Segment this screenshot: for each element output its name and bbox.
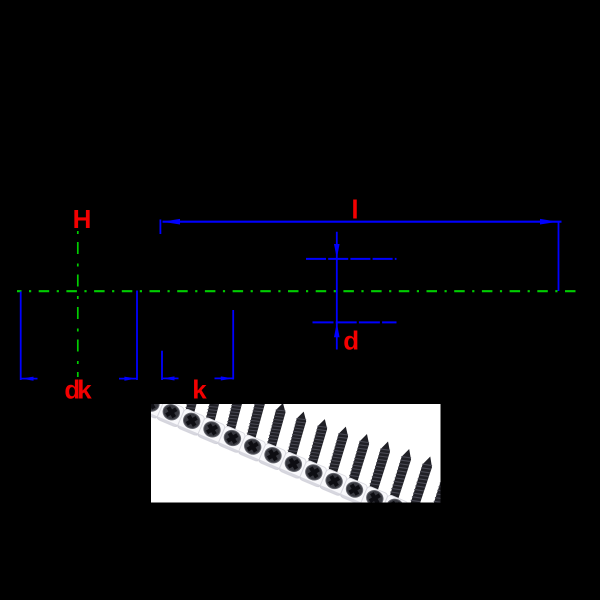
svg-text:d: d <box>343 325 359 355</box>
screw 4 <box>197 376 225 445</box>
dimension dk: right extension line <box>136 291 138 381</box>
screw 10 <box>319 425 350 496</box>
dimension k: left arrow stub <box>163 377 179 379</box>
svg-text:H: H <box>73 204 92 234</box>
screw 9 <box>299 418 330 488</box>
dimension dk: right arrow stub <box>119 378 137 380</box>
screw 13 <box>380 447 413 522</box>
screw 14 <box>401 455 435 531</box>
screw 7 <box>258 402 288 471</box>
dimension dk: left arrow stub <box>22 378 38 380</box>
dimension d: top extent line (dashed) <box>306 258 397 260</box>
screw 15 <box>421 462 456 539</box>
svg-text:l: l <box>351 194 358 224</box>
head axis line (vertical green dash-dot) <box>77 231 79 377</box>
photo background <box>151 404 441 503</box>
dimension l: left extension line <box>159 220 161 235</box>
dimension d: vertical dimension line <box>336 232 338 350</box>
dimension d: bottom extent line (dashed) <box>313 321 397 323</box>
svg-text:k: k <box>192 374 207 404</box>
dimension k: left extension line <box>161 351 163 380</box>
dimension l: dimension line <box>163 221 562 223</box>
dimension dk: right arrowhead <box>124 377 136 381</box>
screw 2 <box>156 358 184 427</box>
screw 3 <box>177 367 205 436</box>
product photo: collated screw strip <box>136 350 456 540</box>
dimension d: lower arrowhead (points up) <box>334 323 340 337</box>
svg-text:dk: dk <box>64 375 92 405</box>
screw 5 <box>218 384 247 453</box>
dimension k: left arrowhead <box>162 376 174 380</box>
dimension k: right extension line <box>232 310 234 380</box>
screw 11 <box>340 433 372 505</box>
dimension l: right extension line <box>558 222 560 292</box>
screw 1 <box>136 350 164 419</box>
screw 8 <box>279 410 309 479</box>
dimension l: right arrowhead <box>540 219 558 225</box>
centerline (horizontal green dash-dot axis) <box>17 290 581 292</box>
screw 6 <box>238 393 267 462</box>
dimension dk: left extension line <box>20 292 22 381</box>
dimension k: right arrow stub <box>215 377 233 379</box>
dimension dk: left arrowhead <box>21 377 33 381</box>
dimension k: right arrowhead <box>221 376 233 380</box>
dimension l: left arrowhead <box>162 219 180 225</box>
dimension d: upper arrowhead (points down) <box>334 244 340 258</box>
screw 12 <box>360 440 393 514</box>
